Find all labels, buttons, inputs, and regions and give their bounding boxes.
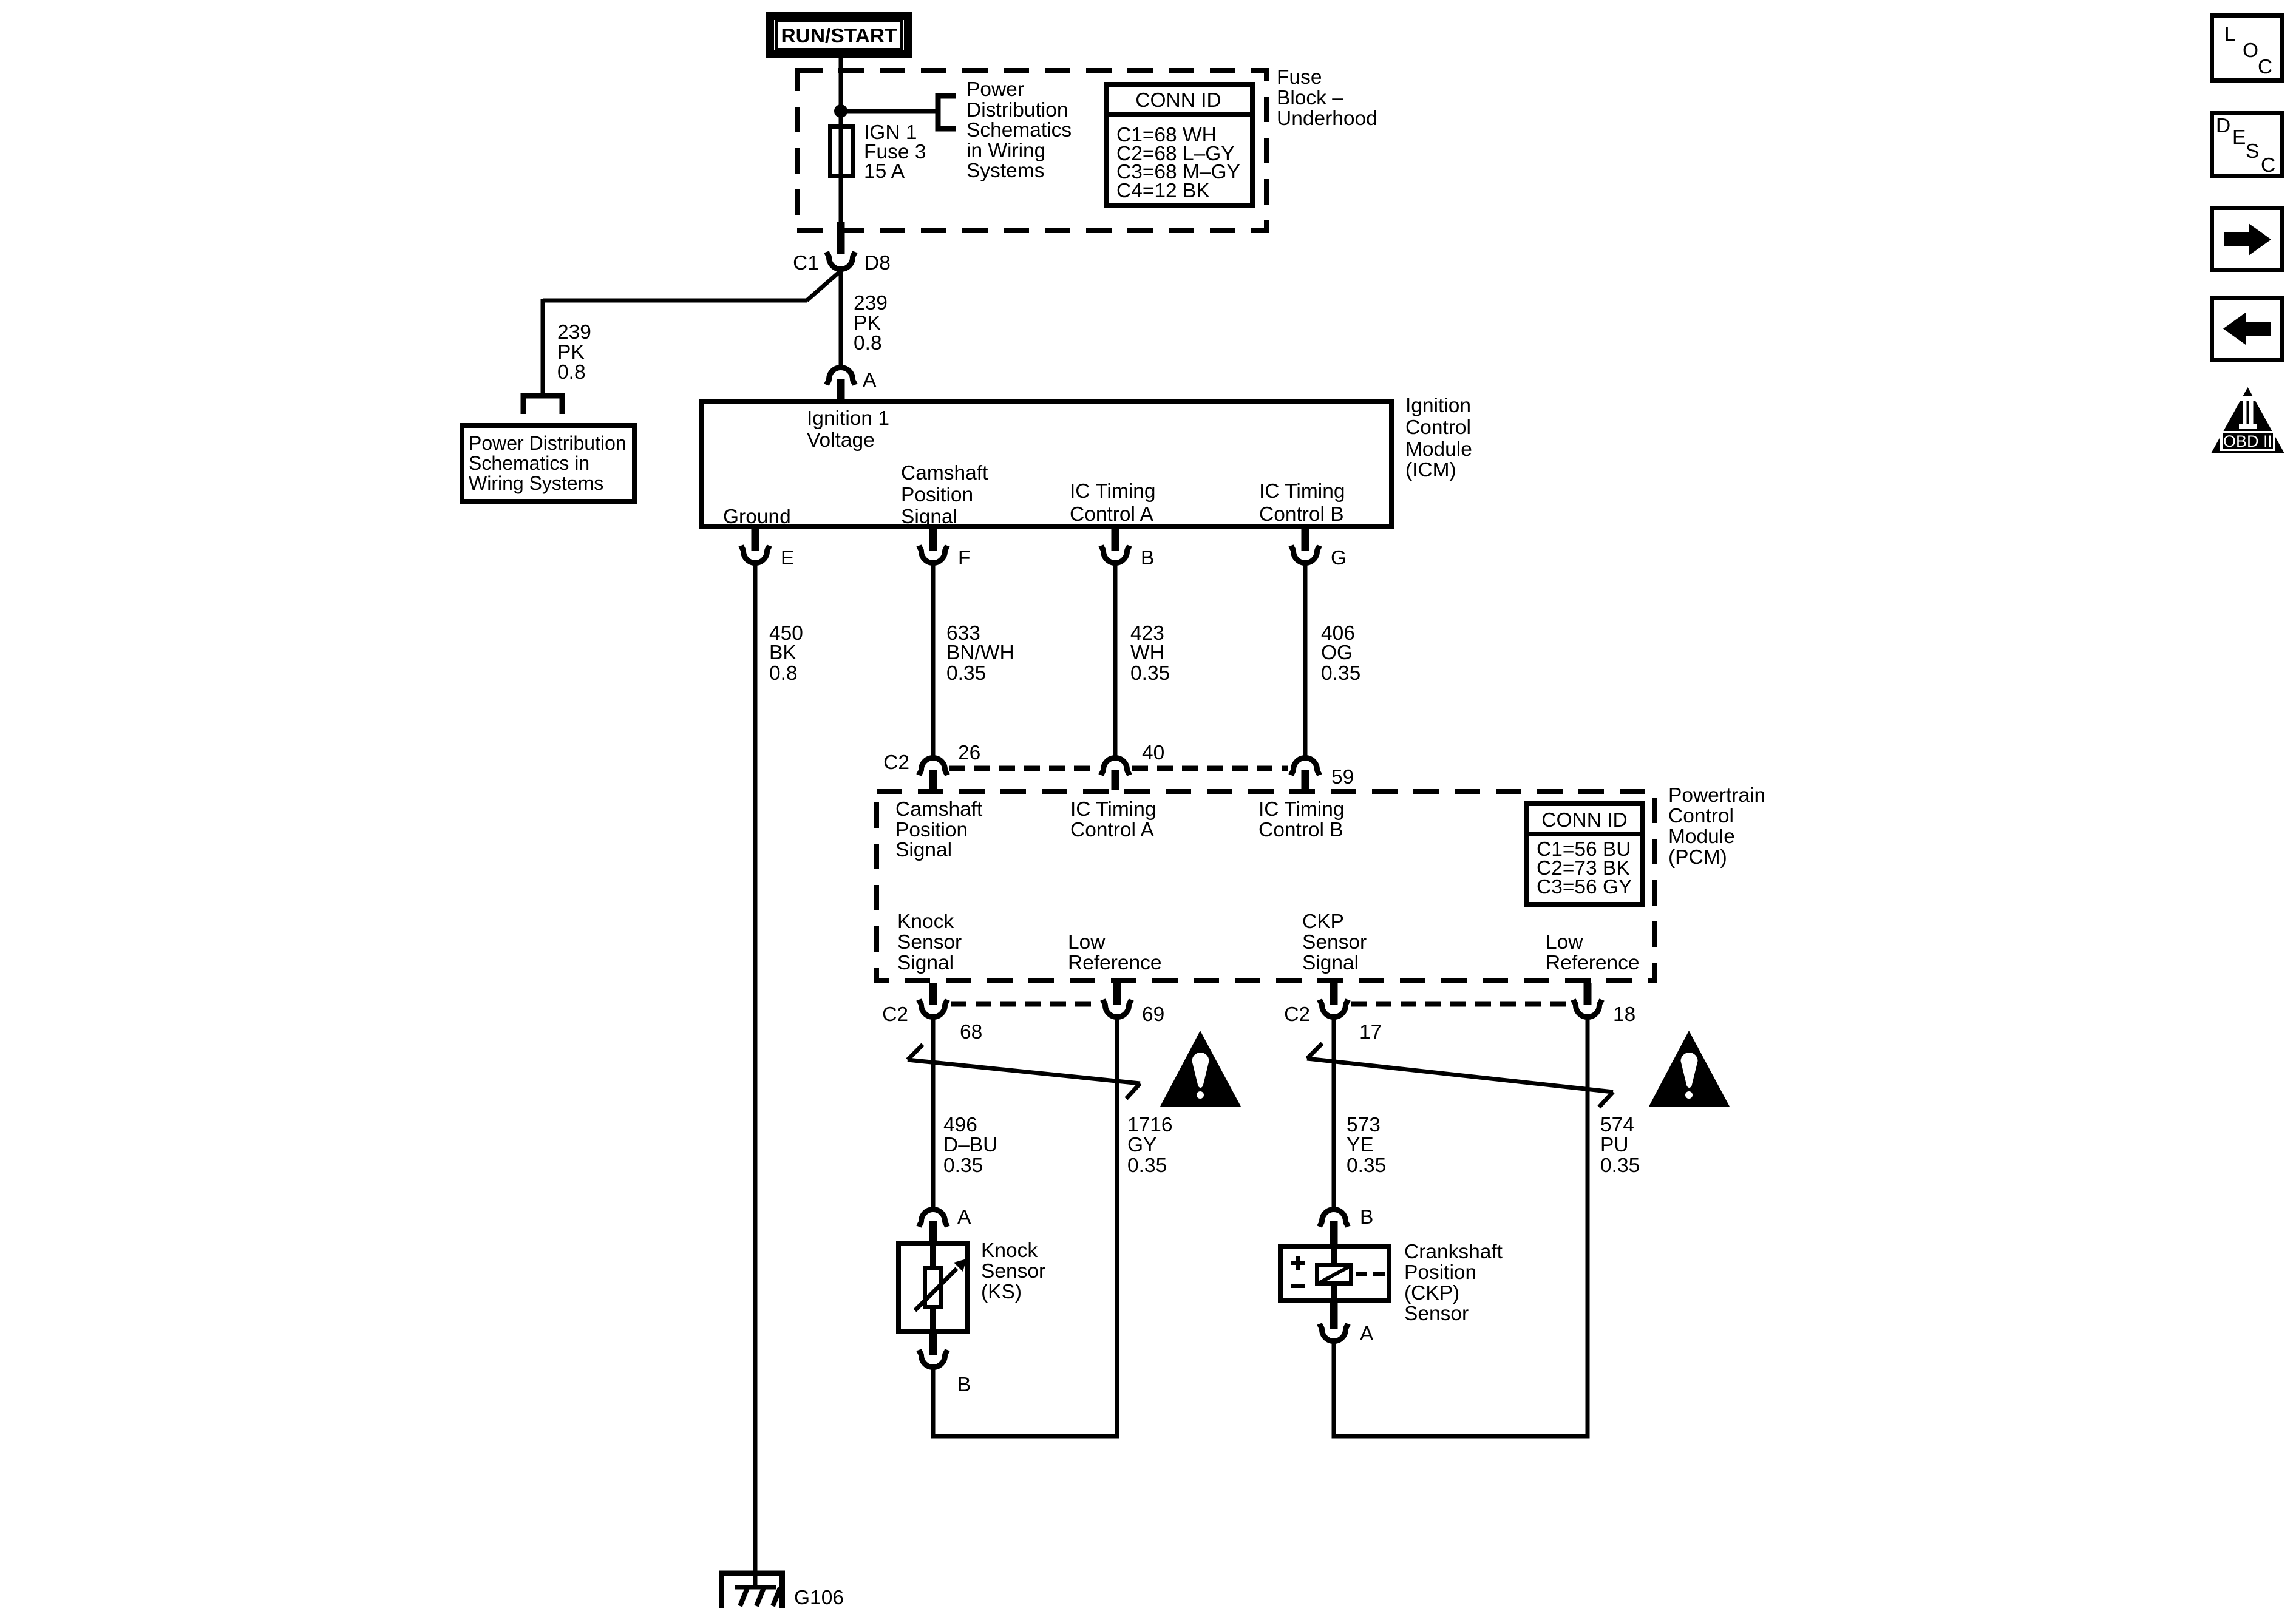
ICM pin B [1101, 529, 1155, 569]
svg-text:C2: C2 [1284, 1003, 1310, 1026]
svg-text:0.35: 0.35 [1600, 1154, 1640, 1177]
svg-text:D: D [2216, 115, 2230, 137]
svg-text:(KS): (KS) [981, 1281, 1022, 1303]
svg-text:A: A [863, 369, 877, 392]
CKP sensor connector A [1320, 1301, 1374, 1345]
svg-text:18: 18 [1613, 1003, 1635, 1026]
ground G106 [719, 1573, 844, 1609]
svg-text:YE: YE [1347, 1134, 1374, 1156]
connector A (ICM ignition 1 voltage) [827, 368, 877, 401]
wire from RUN/START into fuse block [839, 58, 843, 124]
crankshaft position (CKP) sensor [1280, 1241, 1503, 1325]
svg-text:Schematics: Schematics [966, 119, 1072, 141]
svg-text:CONN ID: CONN ID [1541, 809, 1627, 832]
fork symbol above power distribution box [523, 396, 562, 414]
svg-text:Control: Control [1405, 416, 1471, 439]
OBD II symbol [2211, 387, 2284, 453]
PCM pin C2-26 [883, 742, 980, 790]
svg-text:Schematics in: Schematics in [469, 452, 589, 474]
wire knock sensor return loop [931, 1366, 1119, 1436]
knock sensor connector A [919, 1206, 972, 1242]
left arrow legend box [2212, 298, 2283, 360]
svg-text:0.8: 0.8 [557, 361, 586, 384]
svg-text:239: 239 [854, 292, 888, 314]
svg-text:C: C [2261, 154, 2275, 177]
svg-text:Low: Low [1068, 931, 1106, 954]
svg-text:C2: C2 [883, 751, 909, 774]
svg-text:Signal: Signal [901, 506, 957, 528]
fuse block underhood dashed box [797, 70, 1266, 231]
RUN/START power source box [770, 16, 908, 54]
svg-text:Module: Module [1668, 825, 1735, 848]
svg-text:Camshaft: Camshaft [901, 462, 988, 484]
svg-text:PU: PU [1600, 1134, 1629, 1156]
PCM pin 69 [1103, 983, 1165, 1026]
PCM pin C2-68 [882, 983, 982, 1043]
warning triangle (CKP sensor) [1649, 1031, 1730, 1107]
right arrow legend box [2212, 208, 2283, 270]
connector C2 dotted line (top) [949, 766, 1098, 771]
svg-text:574: 574 [1600, 1114, 1634, 1136]
svg-text:L: L [2224, 23, 2236, 46]
svg-text:C3=56 GY: C3=56 GY [1537, 876, 1632, 898]
svg-text:E: E [781, 547, 794, 569]
svg-text:(CKP): (CKP) [1404, 1282, 1459, 1304]
connector C2 dotted line (bottom right) [1351, 1002, 1571, 1007]
ICM pin F [919, 529, 971, 569]
wire 239 PK 0.8 branch to power distribution [543, 271, 841, 396]
knock sensor (KS) [898, 1239, 1045, 1331]
svg-text:Position: Position [901, 484, 973, 506]
wire 574 PU 0.35 [1586, 1016, 1590, 1436]
svg-text:O: O [2243, 39, 2258, 62]
svg-text:Reference: Reference [1546, 952, 1640, 974]
svg-text:Knock: Knock [981, 1239, 1038, 1262]
label Ignition Control Module (ICM) [1405, 395, 1472, 481]
svg-text:D8: D8 [864, 252, 891, 274]
svg-text:0.35: 0.35 [1130, 662, 1170, 685]
label 633 BN/WH 0.35 [946, 622, 1014, 685]
wire 573 YE 0.35 [1332, 1016, 1336, 1208]
svg-text:Control A: Control A [1070, 819, 1154, 841]
svg-text:WH: WH [1130, 642, 1164, 664]
label 1716 GY 0.35 [1127, 1114, 1173, 1177]
svg-text:59: 59 [1331, 766, 1354, 788]
svg-text:PK: PK [854, 312, 881, 334]
svg-text:IC Timing: IC Timing [1070, 480, 1155, 503]
svg-text:Control A: Control A [1070, 503, 1153, 526]
wire 450 BK 0.8 (ground wire E) [753, 562, 758, 1588]
label 423 WH 0.35 [1130, 622, 1170, 685]
svg-text:Wiring Systems: Wiring Systems [469, 472, 603, 494]
svg-text:26: 26 [958, 742, 980, 764]
svg-text:C: C [2258, 56, 2272, 78]
wire 406 OG 0.35 [1303, 562, 1308, 756]
wire 239 PK 0.8 (main) [839, 268, 843, 367]
fork symbol to power distribution schematics [938, 96, 956, 129]
svg-text:PK: PK [557, 341, 585, 364]
wire 423 WH 0.35 [1113, 562, 1118, 756]
svg-text:G106: G106 [794, 1587, 844, 1609]
twisted pair leader (CKP sensor) [1307, 1043, 1613, 1107]
svg-text:IC Timing: IC Timing [1258, 798, 1344, 821]
svg-text:Sensor: Sensor [981, 1260, 1045, 1283]
svg-text:Sensor: Sensor [1302, 931, 1367, 954]
svg-text:Crankshaft: Crankshaft [1404, 1241, 1503, 1263]
svg-text:Ground: Ground [723, 506, 791, 528]
svg-text:Camshaft: Camshaft [895, 798, 983, 821]
svg-text:D–BU: D–BU [943, 1134, 997, 1156]
svg-text:0.35: 0.35 [1127, 1154, 1167, 1177]
wire 633 BN/WH 0.35 [931, 562, 936, 756]
svg-text:17: 17 [1359, 1021, 1382, 1043]
warning triangle (knock sensor) [1160, 1031, 1241, 1107]
PCM pin 59 [1291, 758, 1354, 791]
PCM pin C2-17 [1284, 983, 1382, 1043]
wire fuse to connector C1 [839, 178, 843, 223]
label 496 D-BU 0.35 [943, 1114, 997, 1177]
svg-text:(ICM): (ICM) [1405, 459, 1456, 481]
CONN ID table (fuse block) [1106, 84, 1252, 205]
PCM pin 40 [1101, 742, 1165, 790]
svg-text:Control B: Control B [1258, 819, 1343, 841]
svg-text:68: 68 [960, 1021, 982, 1043]
fuse IGN 1 Fuse 3 15 A [830, 121, 926, 183]
connector C2 dotted line (bottom left) [951, 1002, 1098, 1007]
CKP sensor connector B [1320, 1206, 1374, 1244]
svg-text:CONN ID: CONN ID [1135, 89, 1221, 112]
label 239 PK 0.8 (left branch) [557, 321, 591, 384]
knock sensor connector B [919, 1334, 971, 1396]
svg-text:B: B [957, 1374, 971, 1396]
wire 1716 GY 0.35 [1115, 1016, 1119, 1436]
PCM internal labels [895, 798, 1640, 974]
svg-text:Powertrain: Powertrain [1668, 784, 1765, 807]
label Fuse Block - Underhood [1277, 66, 1377, 130]
svg-text:0.35: 0.35 [943, 1154, 983, 1177]
svg-text:Ignition: Ignition [1405, 395, 1471, 417]
svg-text:239: 239 [557, 321, 591, 344]
label Power Distribution Schematics in Wiring Systems (top) [966, 78, 1072, 182]
svg-text:Fuse: Fuse [1277, 66, 1322, 89]
connector C1 pin D8 [793, 252, 891, 274]
svg-text:B: B [1360, 1206, 1373, 1229]
svg-text:15 A: 15 A [864, 160, 905, 183]
svg-text:Knock: Knock [897, 910, 954, 933]
svg-text:Signal: Signal [895, 839, 952, 861]
svg-text:Power Distribution: Power Distribution [469, 432, 627, 454]
label Powertrain Control Module (PCM) [1668, 784, 1765, 869]
svg-text:OG: OG [1321, 642, 1353, 664]
label 406 OG 0.35 [1321, 622, 1360, 685]
svg-text:GY: GY [1127, 1134, 1156, 1156]
svg-text:IC Timing: IC Timing [1259, 480, 1345, 503]
svg-text:Sensor: Sensor [1404, 1303, 1469, 1325]
svg-text:0.35: 0.35 [946, 662, 986, 685]
svg-text:Control B: Control B [1259, 503, 1344, 526]
svg-text:CKP: CKP [1302, 910, 1344, 933]
svg-text:Sensor: Sensor [897, 931, 962, 954]
svg-text:E: E [2232, 126, 2246, 149]
ICM pin G [1291, 529, 1347, 569]
svg-text:OBD II: OBD II [2223, 432, 2272, 450]
wire CKP sensor return loop [1332, 1340, 1590, 1436]
label 239 PK 0.8 (main) [854, 292, 888, 354]
svg-text:A: A [957, 1206, 971, 1229]
svg-text:Low: Low [1546, 931, 1583, 954]
svg-text:BK: BK [769, 642, 796, 664]
LOC legend box [2212, 16, 2283, 81]
svg-text:Signal: Signal [897, 952, 954, 974]
svg-text:Distribution: Distribution [966, 99, 1068, 121]
svg-text:Position: Position [895, 819, 968, 841]
svg-text:F: F [958, 547, 970, 569]
svg-text:0.35: 0.35 [1321, 662, 1360, 685]
label 573 YE 0.35 [1347, 1114, 1386, 1177]
svg-text:S: S [2246, 140, 2259, 163]
junction dot [834, 104, 847, 118]
svg-text:1716: 1716 [1127, 1114, 1173, 1136]
svg-text:573: 573 [1347, 1114, 1381, 1136]
svg-text:Systems: Systems [966, 160, 1044, 182]
svg-text:Module: Module [1405, 438, 1472, 461]
svg-text:Reference: Reference [1068, 952, 1162, 974]
svg-text:C2: C2 [882, 1003, 908, 1026]
PCM pin 18 [1574, 983, 1636, 1026]
CONN ID table (PCM) [1527, 804, 1643, 904]
svg-text:in Wiring: in Wiring [966, 140, 1045, 162]
label 450 BK 0.8 [769, 622, 803, 685]
ICM pin E [741, 529, 795, 569]
svg-text:69: 69 [1142, 1003, 1164, 1026]
svg-text:Position: Position [1404, 1261, 1476, 1284]
svg-text:G: G [1331, 547, 1347, 569]
wire tap to power distribution reference [841, 109, 937, 114]
svg-text:Power: Power [966, 78, 1024, 101]
svg-text:B: B [1141, 547, 1154, 569]
svg-text:IC Timing: IC Timing [1070, 798, 1156, 821]
svg-text:(PCM): (PCM) [1668, 846, 1727, 869]
ICM box [701, 401, 1391, 528]
svg-text:Control: Control [1668, 805, 1734, 827]
svg-text:496: 496 [943, 1114, 977, 1136]
svg-text:0.8: 0.8 [769, 662, 798, 685]
DESC legend box [2212, 114, 2283, 177]
svg-text:0.35: 0.35 [1347, 1154, 1386, 1177]
svg-text:40: 40 [1142, 742, 1164, 764]
svg-text:Signal: Signal [1302, 952, 1359, 974]
svg-text:C4=12 BK: C4=12 BK [1116, 180, 1210, 202]
svg-text:Underhood: Underhood [1277, 107, 1377, 130]
svg-text:Ignition 1: Ignition 1 [807, 407, 889, 430]
svg-text:C1: C1 [793, 252, 819, 274]
label 574 PU 0.35 [1600, 1114, 1640, 1177]
svg-text:Voltage: Voltage [807, 429, 875, 452]
svg-text:Block –: Block – [1277, 87, 1343, 109]
svg-text:A: A [1360, 1323, 1374, 1345]
svg-text:0.8: 0.8 [854, 332, 882, 354]
svg-text:BN/WH: BN/WH [946, 642, 1014, 664]
wire 496 D-BU 0.35 [931, 1016, 936, 1208]
svg-text:RUN/START: RUN/START [781, 25, 897, 47]
twisted pair leader (knock sensor) [908, 1045, 1140, 1099]
Power Distribution Schematics box (left) [462, 425, 634, 501]
PCM dashed box [877, 792, 1655, 981]
